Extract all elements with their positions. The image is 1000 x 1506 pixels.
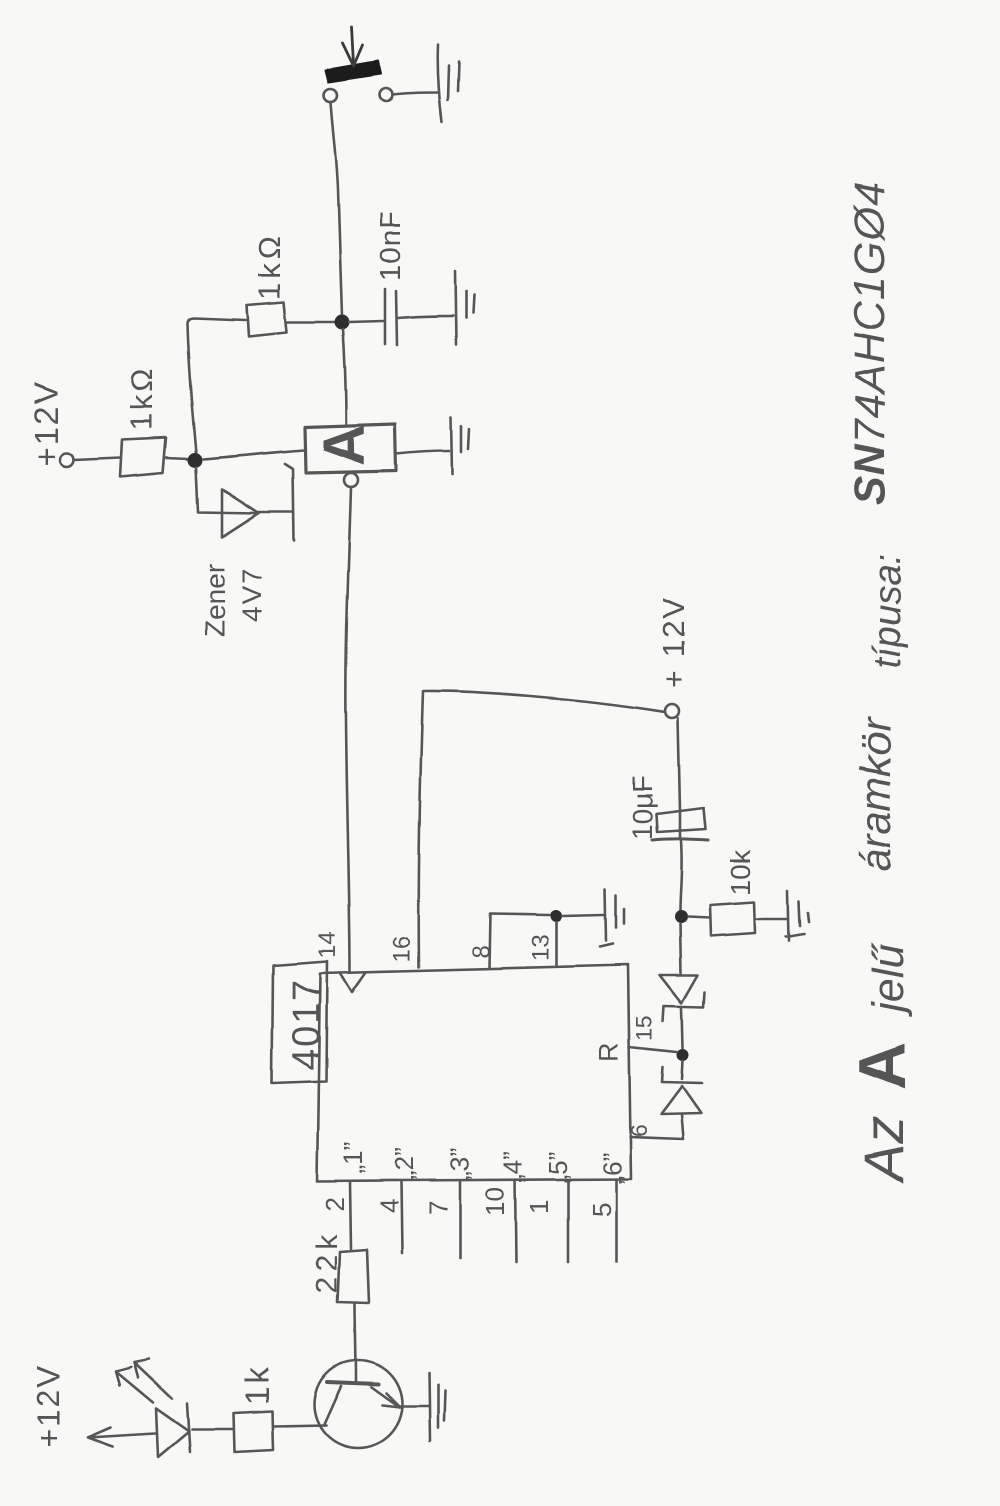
ground (switch) [438,45,442,122]
terminal circle left of S1 [325,89,338,102]
pushbutton S1 actuator arrow [352,27,354,64]
wire S1 left terminal to node Y [331,102,342,316]
pin stub 2 [350,1182,351,1249]
terminal +12V top [60,453,74,467]
svg-text:jelű: jelű [864,942,913,1017]
svg-text:7: 7 [423,1201,453,1215]
svg-text:15: 15 [631,1015,657,1041]
terminal circle right of S1 [380,89,393,102]
wire LED to +12V arrow [89,1433,155,1437]
pin stub 5 [615,1179,618,1262]
LED light arrow 2 [134,1359,172,1398]
+12V arrow head [88,1427,113,1446]
wire node Z to R3 [688,917,710,918]
resistor R2 1kohm box [120,438,166,477]
ground (R3) [788,890,789,941]
wire through C2 plate [679,812,682,838]
resistor R1 1kohm box [247,302,287,336]
wire node Y to U1 input [343,329,346,424]
wire R2 to node X [166,458,188,459]
wire R3 to ground [755,918,787,921]
wire S1 right terminal to ground [393,93,437,95]
pin stub 10 [515,1180,516,1262]
svg-text:„2”: „2” [389,1148,419,1180]
capacitor C2 10uF plus plate [656,808,706,832]
wire R1 to node Y [287,321,335,324]
wire node Z to D2 [680,924,681,973]
resistor R3 10k box [710,902,755,936]
output bubble U1 [344,473,358,487]
svg-text:„3”: „3” [445,1148,475,1180]
zener D1 wire apex to bar [259,511,292,514]
svg-text:13: 13 [527,934,554,961]
svg-text:A: A [845,1042,919,1090]
inverter U1 box [305,424,396,473]
svg-text:+12V: +12V [31,1364,67,1448]
wire Q1 collector to R5 [273,1425,326,1426]
ground (U1) [451,417,452,474]
svg-text:4017: 4017 [286,977,328,1070]
wire R5 to LED [192,1428,233,1431]
zener D1 anode wire [196,467,259,513]
svg-text:4: 4 [374,1199,404,1213]
transistor Q1 collector [324,1386,341,1424]
pin stub 1 [567,1180,570,1262]
svg-text:16: 16 [389,935,416,962]
wire +12V rail to pin 16 [419,691,665,967]
svg-text:10: 10 [480,1187,510,1216]
pushbutton S1 [326,61,381,82]
svg-text:R: R [594,1043,624,1063]
svg-text:10k: 10k [725,849,756,895]
svg-text:2: 2 [320,1197,350,1211]
wire +12V to C2 [678,718,680,811]
resistor R5 1k box [233,1411,273,1452]
svg-text:1: 1 [524,1200,554,1214]
wire C2 to node Z [680,841,682,911]
ground (Q1) [429,1373,430,1441]
svg-text:„5”: „5” [543,1151,573,1183]
transistor Q1 body [314,1360,402,1448]
junction node Y [335,315,350,330]
LED D4 triangle [156,1408,189,1457]
svg-text:1kΩ: 1kΩ [124,366,159,431]
ground (pins 8 13) [605,889,606,941]
zener D1 triangle [222,489,259,537]
diode D2 cathode bar [663,992,705,1021]
capacitor C2 minus plate [652,839,708,840]
svg-text:10μF: 10μF [627,776,658,840]
svg-text:14: 14 [314,931,341,958]
wire U1 to ground [396,451,449,454]
resistor R4 22k box [338,1250,369,1303]
svg-text:A: A [312,424,377,466]
svg-text:+12V: +12V [28,380,65,466]
diode D2 [660,975,698,1003]
zener D1 cathode bar [285,464,294,541]
svg-text:„4”: „4” [498,1151,528,1183]
wire Q1 emitter to ground [400,1405,429,1408]
wire node R to D3 [682,1061,683,1079]
wire node X to U1 vcc [203,450,304,459]
svg-text:1kΩ: 1kΩ [252,232,287,300]
junction node Z [675,911,688,924]
wire node Y to C1 [349,321,383,322]
svg-text:22k: 22k [311,1230,344,1293]
capacitor C1 10nF [384,289,387,344]
svg-text:SN74AHC1GØ4: SN74AHC1GØ4 [846,181,894,505]
svg-text:Az: Az [852,1116,915,1184]
LED light arrow 1 [116,1367,153,1402]
svg-text:Zener: Zener [199,564,230,637]
junction pins 8 13 [550,910,562,922]
clock edge marker pin 14 [341,972,366,992]
pin stub 4 [401,1181,402,1253]
svg-text:8: 8 [468,945,495,958]
svg-text:típusa:: típusa: [867,554,909,668]
junction node X [188,453,203,468]
transistor Q1 emitter arrow [371,1387,400,1407]
svg-text:+ 12V: + 12V [656,596,691,688]
4017 label box [272,961,327,1083]
pin 15 stub [629,1047,677,1052]
wire U1 output to 4017 pin 14 [346,487,351,970]
wire junction to ground [562,915,604,916]
wire R4 to Q1 base [355,1303,356,1382]
wire pin 8 to ground node [489,914,549,967]
svg-text:„6”: „6” [597,1152,627,1184]
svg-text:„1”: „1” [338,1142,368,1174]
svg-text:4V7: 4V7 [236,566,267,622]
junction node R [677,1049,689,1061]
transistor Q1 base bar [327,1382,378,1384]
IC U2 4017 box [317,965,631,1181]
ground (C1) [455,271,456,345]
wire terminal to R2 [74,458,120,460]
LED D4 cathode bar [187,1403,190,1452]
wire pin 13 stub [555,922,558,966]
wire D2 to node R [682,1008,683,1048]
wire D3 to pin 6 [630,1114,683,1139]
svg-text:1k: 1k [238,1364,275,1405]
terminal +12V middle [665,704,679,718]
wire C1 to ground [398,316,453,318]
svg-text:5: 5 [586,1203,616,1217]
diode D3 cathode bar [662,1067,702,1083]
wire node X up to R1 [187,318,246,453]
pin stub 7 [459,1181,462,1258]
svg-text:áramkör: áramkör [852,716,899,872]
svg-text:10nF: 10nF [375,211,407,281]
diode D3 [661,1086,701,1114]
